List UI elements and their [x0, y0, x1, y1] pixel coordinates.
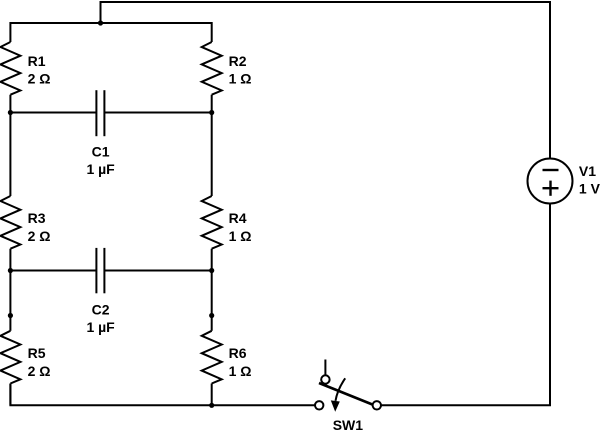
- wire right column C1 to R4: [211, 113, 213, 197]
- svg-text:1 µF: 1 µF: [86, 319, 115, 335]
- wire left column C1 to R3: [9, 113, 11, 197]
- svg-text:2 Ω: 2 Ω: [28, 363, 51, 379]
- svg-text:1 Ω: 1 Ω: [229, 228, 252, 244]
- node C2 left junction: [8, 268, 13, 273]
- node left column junction: [8, 313, 13, 318]
- V1 minus sign: [543, 169, 559, 171]
- wire R2 bottom to C1 node: [211, 95, 213, 113]
- node bottom rail junction: [209, 403, 214, 408]
- wire C1 rail right: [104, 112, 211, 114]
- label R6 value: [229, 345, 252, 379]
- capacitor C1: [96, 90, 104, 136]
- wire bottom rail left: [10, 384, 319, 406]
- svg-text:R2: R2: [229, 53, 247, 69]
- resistor R3: [0, 196, 20, 249]
- wire left column C2 to R5: [9, 271, 11, 331]
- node C1 left junction: [8, 110, 13, 115]
- svg-text:R5: R5: [28, 345, 46, 361]
- SW1 motion arc: [336, 378, 346, 401]
- resistor R2: [202, 42, 222, 95]
- voltage source V1: [528, 159, 573, 204]
- svg-text:R3: R3: [28, 210, 46, 226]
- wire right column C2 to R6: [211, 271, 213, 331]
- wire R1 bottom to C1 node: [9, 95, 11, 113]
- svg-text:1 Ω: 1 Ω: [229, 363, 252, 379]
- SW1 left terminal circle: [315, 401, 323, 409]
- svg-text:2 Ω: 2 Ω: [28, 71, 51, 87]
- svg-text:1 µF: 1 µF: [86, 161, 115, 177]
- SW1 stub above pivot: [324, 360, 326, 376]
- switch SW1: [315, 360, 381, 412]
- wire C1 rail left: [10, 112, 96, 114]
- svg-text:C2: C2: [92, 301, 110, 317]
- label R5 value: [28, 345, 51, 379]
- node right column junction: [209, 313, 214, 318]
- svg-text:SW1: SW1: [333, 417, 364, 432]
- SW1 pivot terminal circle: [321, 375, 329, 383]
- resistor R6: [202, 331, 222, 384]
- svg-text:V1: V1: [579, 163, 596, 179]
- node top branch junction: [98, 20, 103, 25]
- SW1 arrowhead: [331, 400, 340, 411]
- resistor R5: [0, 331, 20, 384]
- V1 plus sign: [543, 181, 559, 196]
- wire R6 bottom to bottom rail: [211, 384, 213, 406]
- capacitor C2: [96, 248, 104, 293]
- node C1 right junction: [209, 110, 214, 115]
- svg-text:R6: R6: [229, 345, 247, 361]
- svg-text:C1: C1: [92, 143, 110, 159]
- wire R3 bottom to C2 node: [9, 249, 11, 271]
- wire C2 rail left: [10, 270, 96, 272]
- resistor R4: [202, 196, 222, 249]
- wire bottom rail right to V1: [377, 204, 550, 406]
- label C1 value: [86, 143, 115, 177]
- label C2 value: [86, 301, 115, 335]
- label R3 value: [28, 210, 51, 244]
- svg-text:2 Ω: 2 Ω: [28, 228, 51, 244]
- SW1 right terminal circle: [373, 401, 381, 409]
- wire top rail to V1: [101, 2, 551, 159]
- resistor R1: [0, 42, 20, 95]
- label R2 value: [229, 53, 252, 87]
- label V1 value: [579, 163, 600, 197]
- svg-text:1 Ω: 1 Ω: [229, 71, 252, 87]
- svg-text:R1: R1: [28, 53, 46, 69]
- wire R5 bottom to bottom rail: [9, 384, 11, 406]
- svg-text:1 V: 1 V: [579, 181, 600, 197]
- wire upper rail R1-R2: [10, 23, 211, 42]
- wire C2 rail right: [104, 270, 211, 272]
- SW1 lever: [319, 383, 373, 405]
- label R4 value: [229, 210, 252, 244]
- label R1 value: [28, 53, 51, 87]
- svg-text:R4: R4: [229, 210, 247, 226]
- wire R4 bottom to C2 node: [211, 249, 213, 271]
- node C2 right junction: [209, 268, 214, 273]
